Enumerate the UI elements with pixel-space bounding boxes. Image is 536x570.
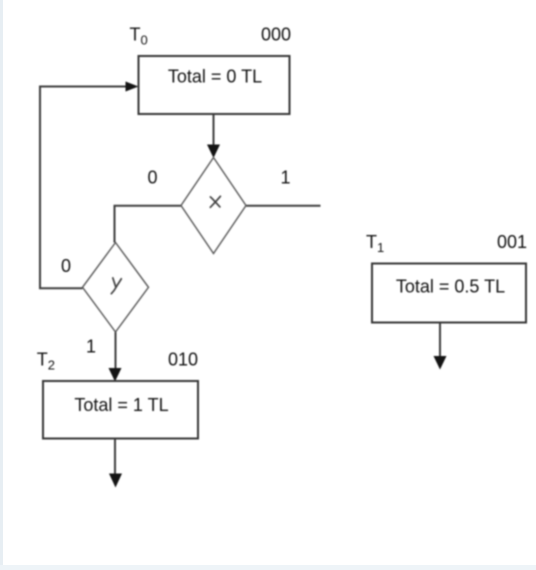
svg-text:Total = 0 TL: Total = 0 TL (168, 67, 262, 87)
svg-text:001: 001 (497, 232, 527, 252)
svg-text:0: 0 (61, 256, 71, 276)
svg-text:Total = 1 TL: Total = 1 TL (74, 395, 168, 415)
svg-text:Total = 0.5 TL: Total = 0.5 TL (396, 277, 505, 297)
svg-text:1: 1 (280, 168, 290, 188)
svg-text:0: 0 (147, 168, 157, 188)
svg-text:T2: T2 (37, 350, 55, 373)
svg-text:T0: T0 (130, 25, 148, 48)
svg-text:010: 010 (168, 350, 198, 370)
svg-text:1: 1 (86, 337, 96, 357)
svg-text:000: 000 (261, 25, 291, 45)
svg-text:T1: T1 (366, 232, 384, 255)
